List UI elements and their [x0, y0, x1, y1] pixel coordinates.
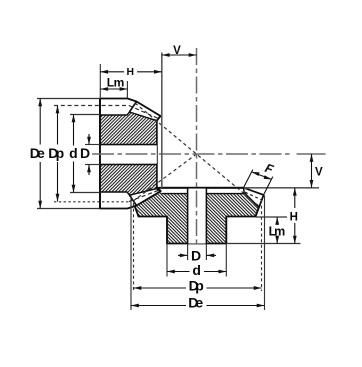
vertical gear top tooth back edge [129, 102, 136, 113]
pitch cone diagonal 1 [135, 103, 259, 206]
vertical gear top tooth pitch dashed [129, 106, 159, 119]
dim Dp bottom [134, 287, 262, 289]
svg-text:Lm: Lm [269, 224, 286, 238]
ext Dp bottom-left dashed [133, 203, 135, 291]
dim De bottom [131, 305, 265, 307]
ext Dp dashed top [54, 105, 130, 107]
ext De bottom-right [264, 196, 266, 311]
centerline vertical axis [196, 48, 198, 245]
centerline horizontal axis [92, 153, 293, 155]
dim Dp left [57, 106, 59, 202]
dim Lm right [276, 217, 278, 244]
svg-text:De: De [188, 295, 203, 311]
svg-text:Dp: Dp [48, 145, 64, 161]
dim d bottom [167, 271, 226, 273]
svg-text:V: V [315, 167, 323, 179]
ext D bore left [85, 144, 100, 146]
ext Lm top [126, 81, 128, 99]
face extension line y188 right [244, 187, 319, 189]
ext Dp dashed bottom [54, 201, 130, 203]
svg-text:D: D [80, 145, 90, 161]
ext d top [70, 114, 100, 116]
svg-text:Dp: Dp [189, 277, 204, 293]
svg-text:d: d [192, 262, 201, 278]
pitch cone diagonal 2 [134, 154, 197, 201]
ext De top [37, 98, 100, 100]
svg-text:d: d [69, 145, 78, 161]
svg-text:H: H [290, 212, 298, 224]
ext De bottom-left [130, 196, 132, 311]
dim D bottom [178, 254, 216, 256]
horizontal gear tooth band [162, 188, 245, 194]
ext d bottom [70, 192, 100, 194]
dim De left [39, 99, 41, 209]
face extension line vertical x162 [161, 53, 163, 188]
rim bottom ext right for Lm [256, 216, 288, 218]
vertical gear silhouette [100, 99, 161, 209]
dim d left [73, 115, 75, 193]
ext H top left [99, 64, 101, 99]
vertical gear body section [100, 112, 157, 195]
dim Lm top [100, 88, 127, 90]
ext De bottom [37, 208, 100, 210]
vertical gear bore [99, 145, 156, 165]
dim F [244, 161, 276, 195]
dim D left [88, 134, 90, 175]
ext d bottom [166, 244, 168, 277]
horizontal gear bore [188, 189, 207, 244]
dim V right [311, 154, 313, 188]
dim H top [100, 71, 162, 73]
horizontal gear right tooth [244, 188, 264, 208]
ext D bottom [187, 244, 189, 260]
horizontal gear right tooth pitch dotted [245, 192, 262, 200]
dim H right [294, 188, 296, 244]
vertical gear bottom tooth back edge [129, 195, 136, 206]
svg-text:V: V [173, 45, 181, 57]
dim V top [162, 54, 197, 56]
svg-text:H: H [126, 67, 134, 78]
ext Dp bottom-right dotted [261, 200, 263, 291]
svg-text:Lm: Lm [107, 76, 125, 90]
vertical gear back face [99, 99, 101, 209]
horizontal gear body section [131, 188, 264, 244]
vertical gear bottom tooth pitch dashed [129, 190, 159, 201]
bottom face ext right [226, 243, 300, 245]
svg-text:De: De [30, 145, 45, 161]
